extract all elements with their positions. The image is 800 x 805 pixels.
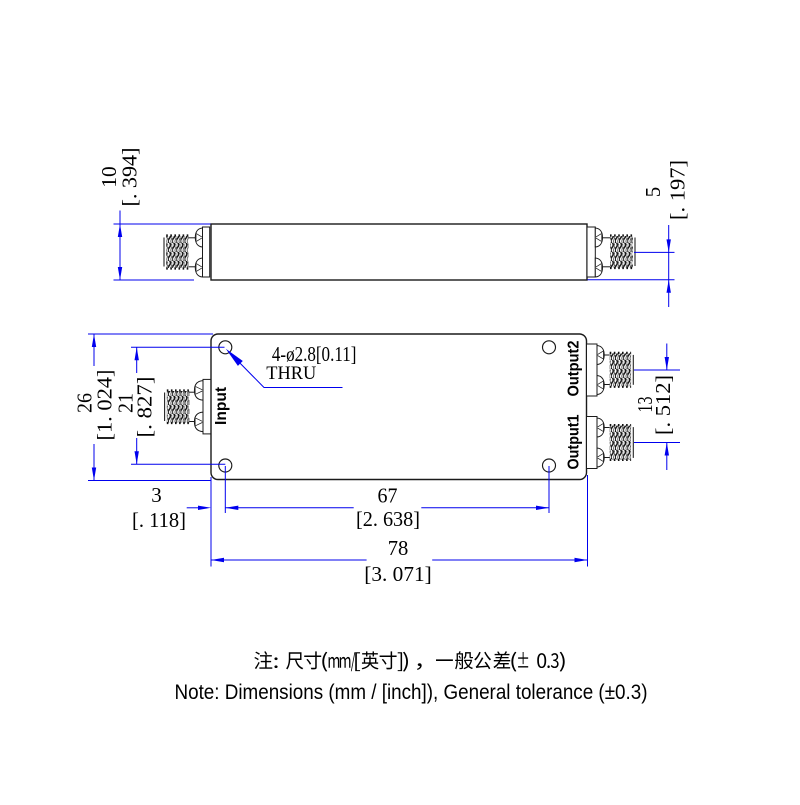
- svg-text:[. 827]: [. 827]: [133, 377, 157, 438]
- svg-text:[. 197]: [. 197]: [666, 160, 690, 220]
- svg-text:Note: Dimensions (mm / [inch]): Note: Dimensions (mm / [inch]), General …: [175, 680, 648, 704]
- svg-text:THRU: THRU: [266, 363, 316, 384]
- svg-text:[. 118]: [. 118]: [132, 508, 186, 532]
- svg-text:3: 3: [151, 483, 162, 507]
- svg-text:5: 5: [641, 187, 665, 198]
- svg-text:Output2: Output2: [565, 340, 582, 396]
- svg-text:67: 67: [378, 484, 398, 508]
- svg-text:Input: Input: [213, 386, 230, 425]
- svg-text:78: 78: [388, 536, 409, 560]
- svg-text:[. 512]: [. 512]: [651, 375, 675, 435]
- svg-text:[2. 638]: [2. 638]: [356, 507, 420, 531]
- svg-text:Output1: Output1: [565, 414, 582, 469]
- svg-text:[. 394]: [. 394]: [118, 148, 142, 207]
- svg-text:[3. 071]: [3. 071]: [364, 562, 432, 586]
